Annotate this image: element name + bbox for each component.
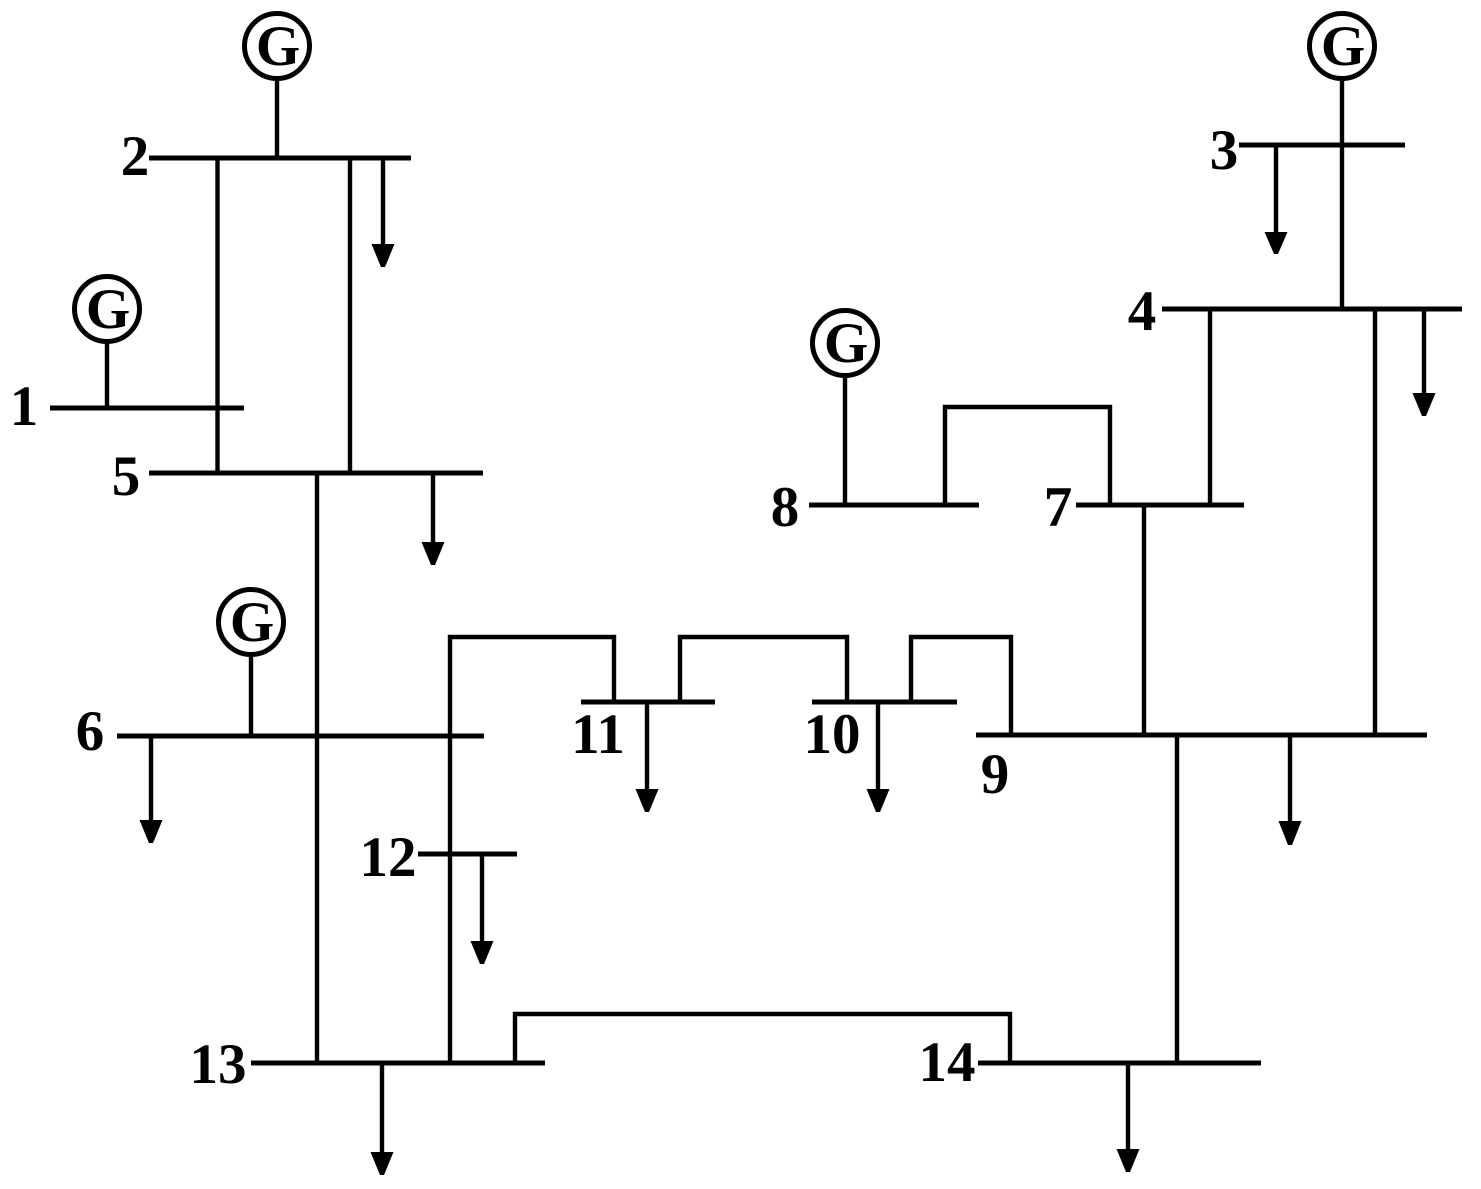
svg-text:9: 9 <box>981 743 1010 806</box>
load at bus 13 <box>380 1063 384 1154</box>
generator G6 lead <box>249 654 253 736</box>
svg-text:7: 7 <box>1044 476 1073 539</box>
svg-text:5: 5 <box>112 445 141 508</box>
wire line 9-14 <box>1175 735 1179 1063</box>
load at bus 4 <box>1422 309 1426 395</box>
wire line 13-14 <box>515 1014 1010 1063</box>
bus 3 <box>1239 143 1405 148</box>
bus 1 <box>50 406 244 411</box>
generator G2 lead <box>275 78 279 158</box>
load at bus 14 <box>1126 1063 1130 1151</box>
wire line 3-4 <box>1340 145 1344 309</box>
bus 11 <box>581 700 715 705</box>
wire line 5-6 <box>315 473 319 736</box>
svg-text:4: 4 <box>1128 280 1157 343</box>
generator G1 lead <box>105 341 109 408</box>
wire line 1-2 <box>215 158 219 408</box>
svg-text:G: G <box>230 591 274 654</box>
load at bus 5 <box>431 473 435 544</box>
wire line 7-9 <box>1142 505 1146 735</box>
svg-text:3: 3 <box>1210 119 1239 182</box>
svg-text:8: 8 <box>771 476 800 539</box>
bus 6 <box>117 734 484 739</box>
wire line 4-7 <box>1208 309 1212 505</box>
load arrow head bus 12 <box>471 941 494 964</box>
load arrow head bus 14 <box>1117 1149 1140 1172</box>
load at bus 10 <box>876 702 880 791</box>
bus 10 <box>812 700 957 705</box>
bus 5 <box>149 471 483 476</box>
load arrow head bus 5 <box>422 542 445 565</box>
svg-text:G: G <box>824 312 868 375</box>
load at bus 11 <box>645 702 649 791</box>
load arrow head bus 13 <box>371 1152 394 1175</box>
svg-text:13: 13 <box>190 1033 247 1096</box>
generator G6 circle <box>219 590 284 655</box>
generator G8 lead <box>843 375 847 505</box>
load arrow head bus 2 <box>372 244 395 267</box>
wire line 6-11 <box>450 637 614 736</box>
wire line 6-13 <box>315 736 319 1063</box>
svg-text:12: 12 <box>360 826 417 889</box>
svg-text:11: 11 <box>571 703 625 766</box>
generator G8 circle <box>813 311 878 376</box>
bus 7 <box>1076 503 1244 508</box>
wire line 6-12 <box>448 736 452 854</box>
svg-text:1: 1 <box>10 375 39 438</box>
wire line 11-10 <box>680 637 847 702</box>
generator G3 lead <box>1340 78 1344 145</box>
wire line 1-5 <box>215 408 219 473</box>
svg-text:G: G <box>1321 15 1365 78</box>
svg-text:6: 6 <box>76 700 105 763</box>
load arrow head bus 11 <box>636 789 659 812</box>
svg-text:14: 14 <box>919 1031 976 1094</box>
load arrow head bus 6 <box>140 820 163 843</box>
load at bus 2 <box>381 158 385 246</box>
load arrow head bus 9 <box>1279 821 1302 845</box>
load at bus 3 <box>1274 145 1278 234</box>
bus 14 <box>978 1061 1261 1066</box>
bus 12 <box>418 852 517 857</box>
load at bus 12 <box>480 854 484 943</box>
wire line 2-5 <box>348 158 352 473</box>
svg-text:G: G <box>86 278 130 341</box>
load at bus 9 <box>1288 735 1292 823</box>
generator G3 circle <box>1310 14 1375 79</box>
wire line 10-9 <box>911 637 1011 735</box>
svg-text:2: 2 <box>121 125 150 188</box>
wire line 12-13 <box>448 854 452 1063</box>
bus 2 <box>149 156 411 161</box>
svg-text:G: G <box>256 15 300 78</box>
load arrow head bus 10 <box>867 789 890 812</box>
bus 13 <box>251 1061 545 1066</box>
load at bus 6 <box>149 736 153 822</box>
load arrow head bus 3 <box>1265 232 1288 254</box>
load arrow head bus 4 <box>1413 393 1436 416</box>
bus 4 <box>1162 307 1462 312</box>
wire line 7-8 <box>945 407 1110 505</box>
wire line 4-9 <box>1373 309 1377 735</box>
bus 8 <box>809 503 979 508</box>
generator G1 circle <box>75 277 140 342</box>
bus 9 <box>976 733 1427 738</box>
generator G2 circle <box>245 14 310 79</box>
svg-text:10: 10 <box>804 703 861 766</box>
